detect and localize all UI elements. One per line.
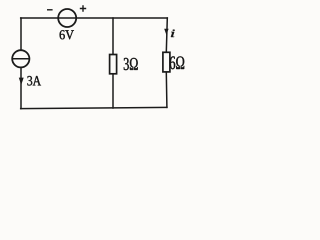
wire middle (112, 18, 114, 108)
polarity plus (80, 5, 86, 11)
polarity minus (47, 9, 53, 11)
resistor R1 3ohm (110, 55, 117, 74)
wire bottom (21, 107, 167, 108)
source arrowhead (19, 78, 24, 85)
voltage source 6V (58, 9, 76, 27)
wire top (21, 17, 168, 19)
resistor R2 6ohm (163, 52, 170, 72)
current source bar (12, 58, 29, 60)
paper background (0, 0, 196, 117)
current source 3A (12, 50, 29, 67)
label 6ohm (170, 56, 184, 69)
wire left (20, 18, 22, 109)
label 3ohm (124, 58, 138, 70)
label 6V (60, 30, 74, 39)
label i (171, 30, 175, 37)
wire right (166, 18, 167, 107)
label 3A (27, 76, 41, 86)
current arrow i head (164, 29, 168, 35)
